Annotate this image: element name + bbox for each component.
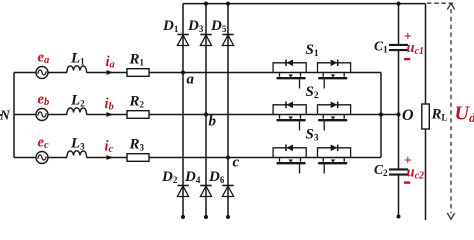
svg-text:ib: ib — [105, 96, 114, 113]
svg-text:eb: eb — [38, 92, 50, 109]
svg-text:b: b — [209, 114, 217, 130]
svg-text:D3: D3 — [187, 18, 204, 34]
svg-text:ec: ec — [38, 135, 49, 152]
svg-text:+: + — [404, 154, 412, 169]
svg-text:a: a — [187, 72, 195, 88]
svg-text:ic: ic — [105, 139, 114, 156]
svg-text:c: c — [233, 155, 240, 171]
svg-text:D2: D2 — [161, 169, 178, 185]
svg-text:R1: R1 — [129, 52, 145, 68]
svg-text:L2: L2 — [70, 93, 85, 109]
svg-text:R2: R2 — [129, 94, 145, 110]
svg-text:ea: ea — [38, 50, 50, 67]
svg-text:S2: S2 — [306, 84, 319, 101]
svg-text:D6: D6 — [208, 169, 225, 185]
svg-text:S3: S3 — [306, 127, 319, 144]
svg-text:ia: ia — [106, 54, 115, 71]
svg-text:D5: D5 — [210, 18, 227, 34]
svg-text:L1: L1 — [70, 51, 85, 67]
svg-text:S1: S1 — [306, 42, 319, 59]
svg-text:O: O — [402, 107, 414, 124]
svg-text:D1: D1 — [162, 18, 179, 34]
svg-text:D4: D4 — [184, 169, 201, 185]
svg-text:+: + — [404, 30, 412, 45]
svg-text:C1: C1 — [374, 39, 388, 56]
svg-text:L3: L3 — [70, 136, 85, 152]
svg-text:Udc: Udc — [455, 103, 474, 126]
svg-text:R3: R3 — [129, 137, 145, 153]
svg-text:RL: RL — [431, 107, 448, 123]
svg-text:C2: C2 — [374, 162, 388, 179]
